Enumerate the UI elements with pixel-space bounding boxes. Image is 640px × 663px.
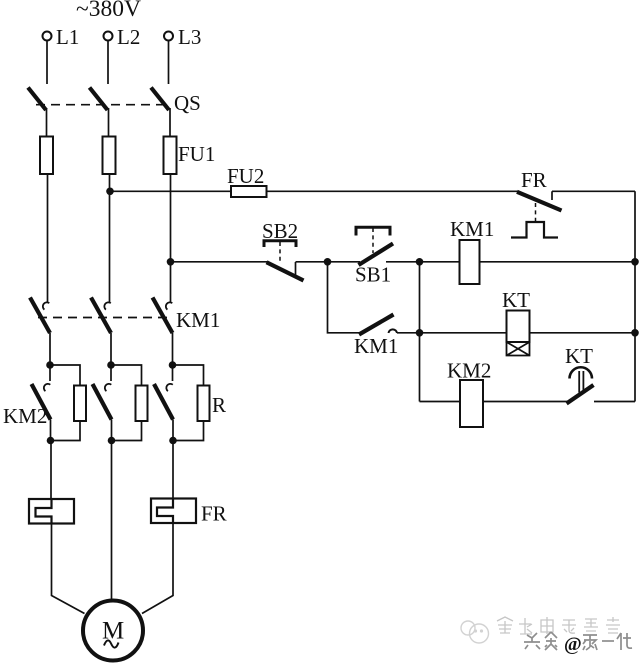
svg-text:KM1: KM1 [450, 217, 494, 241]
svg-text:KT: KT [565, 344, 593, 368]
wire KT coil to right rail [530, 332, 636, 334]
wire L3 to QS [168, 41, 170, 85]
junction dot phase1 bottom [47, 437, 55, 445]
contactor KM1 main pole1 blade [30, 298, 50, 334]
pushbutton SB1 NO blade [359, 244, 394, 266]
SB1 actuator bracket [356, 227, 390, 235]
wire control line from L2 junction to FU2 [110, 190, 231, 192]
junction dot on L2 phase [106, 188, 114, 196]
junction dot right rail coil line [631, 258, 639, 266]
wire KT contact to right rail [594, 401, 635, 403]
svg-text:KM2: KM2 [3, 404, 47, 428]
fuse FU2 [231, 186, 267, 197]
pushbutton SB2 NC blade [267, 262, 304, 280]
wire KM1 pole2 to node [110, 333, 112, 365]
wire FU2 to FR contact [267, 190, 518, 192]
svg-text:FR: FR [201, 502, 227, 526]
svg-text:R: R [212, 393, 226, 417]
KT contact delay arc [570, 367, 593, 378]
junction dot SB2/SB1 left node [324, 258, 332, 266]
fuse FU1 phase3 [169, 137, 171, 175]
wire phase2 to KM2 contact [110, 365, 112, 381]
wire phase3 to FR heater [172, 441, 174, 499]
auxiliary contact KM1 NO blade [359, 315, 394, 335]
wire phase3 fuse to KM1 contact [170, 174, 172, 303]
wire right rail vertical [634, 191, 636, 401]
svg-text:KM1: KM1 [176, 308, 220, 332]
wire phase2 fuse to KM1 contact [109, 174, 111, 303]
thermal relay FR heater phase3 [151, 499, 196, 524]
resistor R phase1 branch top [50, 365, 80, 386]
wire SB2 to SB1 [296, 261, 361, 263]
FR heater phase3 element jog [157, 499, 173, 524]
svg-text:M: M [102, 618, 124, 645]
junction dot phase3 top [169, 361, 177, 369]
resistor R phase1 branch bottom [51, 421, 81, 441]
motor tilde symbol [104, 640, 119, 647]
resistor R phase2 branch bottom [112, 421, 142, 441]
junction dot SB1 right node [416, 258, 424, 266]
FR heater phase1 element jog [36, 499, 52, 524]
KM2 pole1 fixed contact hook [44, 384, 50, 391]
wire KM1 pole3 to node [172, 333, 174, 365]
FR contact push symbol [511, 222, 558, 238]
contactor coil KM2 [460, 380, 483, 427]
wire KM2 branch bottom [420, 401, 461, 403]
KM1 aux fixed contact bump [389, 329, 398, 333]
resistor R phase2 [136, 386, 148, 422]
wire QS pole1 to fuse FU1a [46, 108, 48, 137]
time relay coil KT [507, 311, 530, 343]
switch QS pole 1 blade [28, 88, 46, 111]
SB2 right terminal tick [295, 262, 297, 276]
svg-text:KM1: KM1 [354, 334, 398, 358]
junction dot phase2 bottom [108, 437, 116, 445]
wire KM2 pole3 to bottom node [172, 420, 174, 441]
wire branch node vertical [419, 262, 421, 402]
svg-text:SB1: SB1 [355, 263, 391, 287]
KT contact stem lines [579, 371, 583, 393]
thermal relay FR heater phase1 [29, 499, 74, 524]
wire KM2 pole2 to bottom node [111, 420, 113, 441]
watermark text 全球电气资源 [497, 617, 620, 634]
svg-text:FU2: FU2 [227, 164, 264, 188]
wire phase1 to KM2 contact [49, 365, 51, 381]
wire phase1 fuse to KM1 contact [47, 174, 49, 303]
fuse FU1 phase1 [46, 137, 48, 175]
svg-text:L1: L1 [56, 25, 79, 49]
wire L1 to QS [46, 41, 48, 85]
SB2 dashed stem [279, 242, 281, 263]
svg-text:FR: FR [521, 168, 547, 192]
svg-text:KT: KT [502, 288, 530, 312]
resistor R phase2 branch top [111, 365, 142, 386]
wire KM1 pole1 to node [49, 333, 51, 365]
terminal L1 [43, 32, 52, 41]
wire phase1 to FR heater [50, 441, 52, 500]
svg-text:L3: L3 [178, 25, 201, 49]
KT coil delay element box [507, 342, 530, 356]
junction dot KT line left [416, 329, 424, 337]
KM1 main pole1 fixed contact hook [43, 302, 49, 309]
wire QS pole2 to fuse FU1b [108, 108, 110, 137]
wire phase2 to motor [111, 441, 113, 602]
thermal relay FR NC contact blade [517, 192, 562, 211]
switch QS linkage dashed [36, 104, 163, 106]
SB1 dashed stem [372, 228, 374, 253]
wire QS pole3 to fuse FU1c [169, 108, 171, 137]
SB2 actuator bracket [264, 241, 296, 247]
resistor R phase3 branch bottom [173, 421, 204, 441]
svg-text:QS: QS [174, 91, 201, 115]
wire phase1 to motor [52, 524, 85, 614]
contactor KM2 pole1 blade [32, 384, 51, 420]
KM1 main pole2 fixed contact hook [104, 302, 110, 309]
time relay KT delayed contact blade [567, 385, 594, 404]
contactor KM1 main pole3 blade [153, 298, 173, 334]
KM1 main pole3 fixed contact hook [166, 302, 172, 309]
fuse FU1 phase2 [108, 137, 110, 175]
svg-text:KM2: KM2 [447, 359, 491, 383]
wire phase3 junction to SB2 [171, 261, 268, 263]
wire SB1 to KM1 coil [386, 261, 460, 263]
FR contact dashed actuator stem [535, 203, 537, 221]
watermark logo [461, 621, 489, 643]
svg-text:SB2: SB2 [262, 219, 298, 243]
wire node to KT coil [420, 332, 507, 334]
wire self-hold branch down from SB left node [328, 262, 360, 333]
contactor KM2 pole3 blade [154, 384, 173, 420]
switch QS pole 3 blade [151, 88, 169, 111]
terminal L3 [164, 32, 173, 41]
wire FR to right rail [552, 190, 635, 192]
terminal L2 [104, 32, 113, 41]
wire KM1 aux to node [397, 332, 420, 334]
svg-text:FU1: FU1 [178, 142, 215, 166]
watermark text 头条@泵一代 [524, 632, 632, 655]
wire phase3 to motor [142, 523, 173, 614]
KM1 main linkage dashed [38, 317, 168, 319]
KM2 pole2 fixed contact hook [105, 384, 111, 391]
junction dot on L3 phase [167, 258, 175, 266]
junction dot phase3 bottom [169, 437, 177, 445]
FR contact right terminal tick [551, 191, 553, 200]
resistor R phase1 [74, 386, 86, 422]
KM2 pole3 fixed contact hook [166, 384, 172, 391]
contactor KM2 pole2 blade [93, 384, 112, 420]
switch QS pole 2 blade [90, 88, 108, 111]
wire L2 to QS [107, 41, 109, 85]
junction dot phase2 top [107, 361, 115, 369]
junction dot right rail KT line [631, 329, 639, 337]
motor M circle [83, 601, 143, 661]
svg-text:@: @ [564, 634, 582, 655]
junction dot phase1 top [46, 361, 54, 369]
contactor coil KM1 [460, 240, 480, 284]
resistor R phase3 branch top [173, 365, 204, 386]
svg-text:L2: L2 [117, 25, 140, 49]
svg-text:~380V: ~380V [76, 0, 141, 22]
contactor KM1 main pole2 blade [91, 298, 111, 334]
wire KM2 pole1 to bottom node [50, 420, 52, 441]
wire KM1 coil to right rail [480, 261, 636, 263]
wire KM2 coil to KT contact [483, 401, 569, 403]
wire phase3 to KM2 contact [172, 365, 174, 381]
resistor R phase3 [198, 386, 210, 422]
